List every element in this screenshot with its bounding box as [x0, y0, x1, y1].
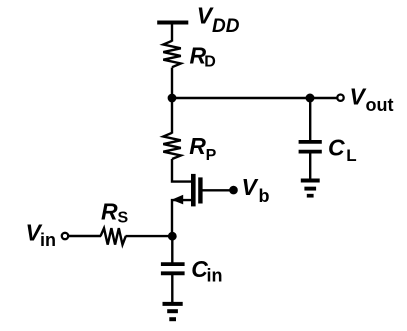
source arrow (NMOS)	[172, 195, 184, 205]
svg-text:L: L	[346, 146, 356, 165]
gate wire to Vb	[202, 189, 230, 191]
svg-text:DD: DD	[212, 16, 240, 37]
Vb node dot	[229, 186, 238, 195]
wire Cin to ground	[171, 275, 173, 303]
label Vb	[242, 174, 270, 206]
label VDD	[197, 3, 240, 37]
wire VDD bar to RD top	[171, 23, 173, 42]
ground symbol (Cin)	[163, 304, 183, 319]
svg-text:S: S	[118, 209, 129, 226]
label Cin	[191, 256, 222, 286]
wire RP bottom to drain lead	[172, 159, 192, 182]
svg-text:in: in	[40, 230, 56, 250]
terminal Vin (open circle)	[62, 233, 68, 239]
label RP	[189, 133, 216, 164]
wire CL tap down to CL	[309, 98, 311, 141]
svg-text:C: C	[328, 134, 345, 160]
svg-text:P: P	[206, 147, 217, 164]
wire RS to node Y	[126, 235, 173, 237]
junction node Y	[168, 232, 177, 241]
svg-text:out: out	[366, 95, 394, 115]
transistor M1 gate bar	[198, 177, 202, 203]
wire RD bottom to node X	[171, 68, 173, 99]
svg-text:V: V	[350, 83, 367, 109]
svg-text:R: R	[101, 198, 118, 224]
wire node X to Vout terminal	[172, 97, 337, 99]
capacitor Cin top plate	[161, 262, 185, 266]
label RS	[101, 198, 129, 226]
svg-text:D: D	[204, 53, 216, 70]
label RD	[190, 42, 216, 70]
resistor RP	[163, 133, 181, 159]
label Vin	[26, 220, 57, 250]
svg-text:in: in	[207, 266, 223, 286]
transistor M1 channel bar	[191, 174, 196, 207]
source lead from channel to corner	[172, 200, 192, 233]
capacitor CL top plate	[299, 140, 322, 144]
junction node CL tap	[306, 94, 315, 103]
wire Vin terminal to RS	[69, 235, 102, 237]
VDD supply bar	[157, 21, 188, 25]
capacitor Cin bottom plate	[161, 271, 185, 275]
svg-text:R: R	[189, 133, 206, 159]
svg-text:V: V	[242, 174, 259, 200]
label CL	[328, 134, 357, 165]
resistor RD	[163, 41, 181, 67]
wire CL to ground	[309, 153, 311, 180]
junction node X	[168, 94, 177, 103]
wire node X down to RP	[171, 98, 173, 134]
terminal Vout (open circle)	[337, 95, 343, 101]
wire node Y down to Cin	[171, 236, 173, 263]
ground symbol (CL)	[301, 181, 320, 196]
resistor RS	[101, 228, 126, 244]
label Vout	[350, 83, 394, 114]
svg-text:b: b	[259, 186, 270, 206]
capacitor CL bottom plate	[299, 150, 322, 154]
